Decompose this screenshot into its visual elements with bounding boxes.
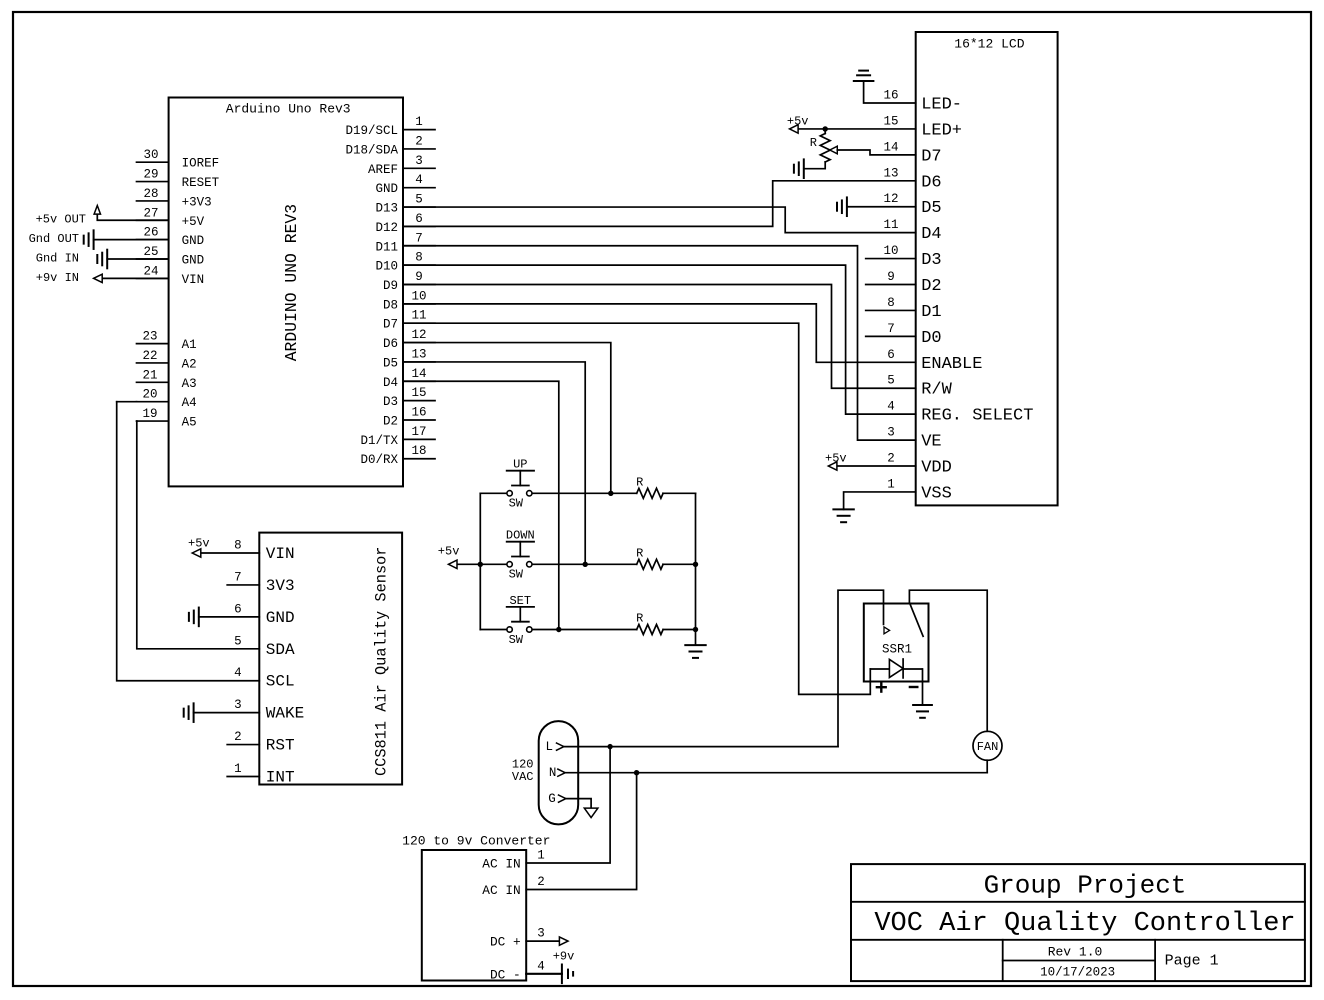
svg-text:3: 3 — [537, 927, 545, 941]
svg-text:VIN: VIN — [266, 545, 295, 563]
svg-text:ENABLE: ENABLE — [921, 355, 982, 374]
svg-text:Arduino Uno Rev3: Arduino Uno Rev3 — [226, 102, 351, 117]
svg-text:AC IN: AC IN — [482, 857, 520, 872]
svg-text:5: 5 — [415, 193, 423, 207]
svg-text:1: 1 — [415, 115, 423, 129]
svg-text:14: 14 — [883, 140, 898, 154]
svg-text:VOC Air Quality Controller: VOC Air Quality Controller — [874, 909, 1295, 939]
svg-text:30: 30 — [143, 148, 158, 162]
svg-text:3: 3 — [234, 698, 242, 712]
svg-text:+5v: +5v — [438, 545, 460, 559]
svg-text:4: 4 — [887, 400, 895, 414]
svg-text:26: 26 — [143, 226, 158, 240]
svg-text:D3: D3 — [921, 251, 941, 270]
svg-text:+9v: +9v — [553, 950, 575, 964]
svg-text:DOWN: DOWN — [506, 529, 535, 543]
svg-text:+5V: +5V — [182, 215, 205, 229]
svg-text:SW: SW — [509, 633, 524, 647]
svg-text:D7: D7 — [921, 147, 941, 166]
svg-text:2: 2 — [234, 730, 242, 744]
svg-text:IOREF: IOREF — [182, 157, 220, 171]
svg-text:3: 3 — [415, 154, 423, 168]
svg-text:REG. SELECT: REG. SELECT — [921, 407, 1033, 426]
svg-text:DC -: DC - — [490, 967, 521, 982]
svg-text:R: R — [636, 546, 643, 560]
svg-text:A5: A5 — [182, 416, 197, 430]
svg-text:6: 6 — [234, 602, 242, 616]
svg-text:4: 4 — [415, 173, 423, 187]
svg-text:D19/SCL: D19/SCL — [345, 124, 398, 138]
svg-text:VDD: VDD — [921, 459, 952, 478]
svg-text:RESET: RESET — [182, 176, 220, 190]
svg-text:GND: GND — [375, 182, 398, 196]
svg-text:3V3: 3V3 — [266, 577, 295, 595]
svg-text:11: 11 — [883, 218, 898, 232]
svg-text:D5: D5 — [383, 356, 398, 370]
svg-text:2: 2 — [887, 452, 895, 466]
svg-text:AREF: AREF — [368, 163, 398, 177]
svg-text:7: 7 — [887, 322, 895, 336]
svg-text:D6: D6 — [921, 173, 941, 192]
svg-text:D0/RX: D0/RX — [360, 453, 398, 467]
svg-text:D10: D10 — [375, 260, 398, 274]
svg-text:Gnd OUT: Gnd OUT — [29, 232, 79, 246]
svg-text:28: 28 — [143, 187, 158, 201]
svg-text:15: 15 — [411, 386, 426, 400]
svg-text:UP: UP — [513, 458, 527, 472]
svg-text:12: 12 — [411, 328, 426, 342]
svg-text:D1/TX: D1/TX — [360, 434, 398, 448]
svg-text:D5: D5 — [921, 199, 941, 218]
svg-text:2: 2 — [537, 875, 545, 889]
svg-text:+5v: +5v — [825, 452, 847, 466]
svg-text:18: 18 — [411, 444, 426, 458]
svg-text:+3V3: +3V3 — [182, 195, 212, 209]
svg-text:14: 14 — [411, 367, 426, 381]
svg-text:8: 8 — [234, 539, 242, 553]
svg-text:INT: INT — [266, 769, 295, 787]
svg-text:29: 29 — [143, 168, 158, 182]
svg-text:10: 10 — [883, 244, 898, 258]
svg-text:SDA: SDA — [266, 641, 295, 659]
svg-text:22: 22 — [142, 349, 157, 363]
svg-text:8: 8 — [887, 296, 895, 310]
svg-text:L: L — [546, 740, 554, 754]
svg-text:SCL: SCL — [266, 673, 295, 691]
svg-text:27: 27 — [143, 206, 158, 220]
svg-text:11: 11 — [411, 309, 426, 323]
svg-text:SSR1: SSR1 — [882, 643, 912, 657]
svg-text:R: R — [636, 612, 643, 626]
svg-text:19: 19 — [142, 407, 157, 421]
svg-text:16*12 LCD: 16*12 LCD — [954, 37, 1024, 52]
svg-text:D13: D13 — [375, 202, 398, 216]
svg-text:16: 16 — [411, 406, 426, 420]
svg-text:D4: D4 — [383, 376, 398, 390]
svg-text:13: 13 — [411, 347, 426, 361]
svg-text:4: 4 — [537, 959, 545, 973]
svg-text:2: 2 — [415, 134, 423, 148]
svg-text:13: 13 — [883, 166, 898, 180]
svg-text:G: G — [548, 792, 556, 806]
svg-text:D2: D2 — [383, 415, 398, 429]
svg-text:RST: RST — [266, 737, 295, 755]
svg-text:SW: SW — [509, 497, 524, 511]
svg-text:17: 17 — [411, 425, 426, 439]
svg-text:FAN: FAN — [977, 740, 999, 754]
svg-text:D0: D0 — [921, 329, 941, 348]
svg-text:R: R — [810, 136, 817, 150]
svg-text:21: 21 — [142, 368, 157, 382]
svg-text:D1: D1 — [921, 303, 941, 322]
svg-text:VIN: VIN — [182, 273, 205, 287]
svg-text:+9v IN: +9v IN — [36, 271, 79, 285]
svg-text:GND: GND — [182, 254, 205, 268]
svg-text:12: 12 — [883, 192, 898, 206]
svg-text:3: 3 — [887, 426, 895, 440]
svg-text:4: 4 — [234, 666, 242, 680]
svg-text:1: 1 — [537, 849, 545, 863]
svg-text:20: 20 — [142, 388, 157, 402]
svg-text:1: 1 — [887, 477, 895, 491]
svg-text:ARDUINO UNO REV3: ARDUINO UNO REV3 — [282, 204, 301, 361]
svg-text:D4: D4 — [921, 225, 941, 244]
svg-text:SW: SW — [509, 568, 524, 582]
svg-text:D6: D6 — [383, 337, 398, 351]
svg-text:9: 9 — [415, 270, 423, 284]
svg-text:6: 6 — [887, 348, 895, 362]
svg-text:VE: VE — [921, 433, 941, 452]
svg-text:5: 5 — [887, 374, 895, 388]
svg-text:+5v OUT: +5v OUT — [36, 213, 86, 227]
svg-text:D11: D11 — [375, 240, 398, 254]
svg-text:R/W: R/W — [921, 381, 952, 400]
svg-text:SET: SET — [509, 594, 531, 608]
svg-text:23: 23 — [142, 330, 157, 344]
svg-text:D18/SDA: D18/SDA — [345, 143, 398, 157]
svg-text:D7: D7 — [383, 318, 398, 332]
svg-text:16: 16 — [883, 89, 898, 103]
svg-text:GND: GND — [182, 234, 205, 248]
svg-text:120: 120 — [512, 757, 534, 771]
svg-text:AC IN: AC IN — [482, 883, 520, 898]
svg-text:8: 8 — [415, 251, 423, 265]
svg-text:R: R — [636, 475, 643, 489]
svg-text:VSS: VSS — [921, 484, 952, 503]
svg-text:D8: D8 — [383, 298, 398, 312]
svg-text:Group Project: Group Project — [984, 871, 1187, 901]
svg-text:7: 7 — [415, 231, 423, 245]
svg-text:D3: D3 — [383, 395, 398, 409]
svg-text:5: 5 — [234, 634, 242, 648]
svg-text:25: 25 — [143, 245, 158, 259]
svg-text:CCS811 Air Quality Sensor: CCS811 Air Quality Sensor — [373, 547, 391, 777]
svg-text:A1: A1 — [182, 338, 197, 352]
svg-text:D9: D9 — [383, 279, 398, 293]
svg-text:10/17/2023: 10/17/2023 — [1040, 966, 1115, 980]
svg-text:15: 15 — [883, 114, 898, 128]
svg-text:+5v: +5v — [188, 537, 210, 551]
svg-text:A4: A4 — [182, 396, 197, 410]
svg-text:GND: GND — [266, 609, 295, 627]
svg-text:9: 9 — [887, 270, 895, 284]
svg-text:VAC: VAC — [512, 770, 534, 784]
svg-text:24: 24 — [143, 264, 158, 278]
svg-text:7: 7 — [234, 570, 242, 584]
svg-text:D12: D12 — [375, 221, 398, 235]
svg-text:+5v: +5v — [787, 115, 809, 129]
svg-text:A2: A2 — [182, 357, 197, 371]
svg-text:Gnd IN: Gnd IN — [36, 252, 79, 266]
svg-text:Rev 1.0: Rev 1.0 — [1048, 945, 1103, 960]
svg-text:D2: D2 — [921, 277, 941, 296]
svg-text:10: 10 — [411, 289, 426, 303]
svg-text:DC +: DC + — [490, 935, 521, 950]
svg-text:WAKE: WAKE — [266, 705, 304, 723]
svg-text:LED+: LED+ — [921, 121, 962, 140]
svg-text:A3: A3 — [182, 377, 197, 391]
svg-text:LED-: LED- — [921, 96, 962, 115]
svg-text:1: 1 — [234, 762, 242, 776]
svg-text:N: N — [549, 766, 557, 780]
svg-text:120 to 9v Converter: 120 to 9v Converter — [402, 834, 550, 849]
svg-text:6: 6 — [415, 212, 423, 226]
svg-text:Page 1: Page 1 — [1165, 953, 1219, 970]
